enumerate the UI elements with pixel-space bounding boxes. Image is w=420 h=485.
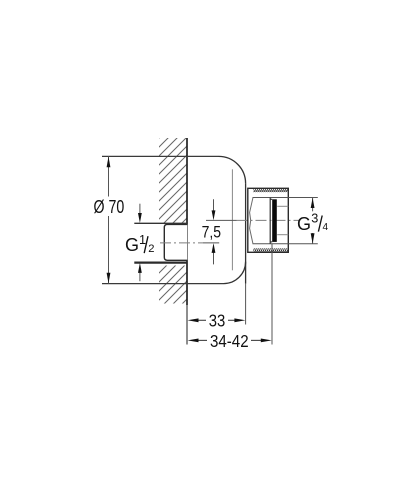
svg-text:G: G	[297, 214, 311, 234]
svg-text:4: 4	[323, 222, 329, 233]
svg-text:3: 3	[311, 212, 318, 226]
svg-text:G: G	[125, 235, 139, 255]
svg-text:7,5: 7,5	[202, 223, 222, 242]
svg-text:1: 1	[139, 233, 146, 247]
svg-text:34-42: 34-42	[210, 331, 249, 351]
svg-text:2: 2	[148, 243, 154, 255]
svg-text:33: 33	[209, 310, 226, 330]
svg-text:Ø 70: Ø 70	[94, 197, 125, 217]
